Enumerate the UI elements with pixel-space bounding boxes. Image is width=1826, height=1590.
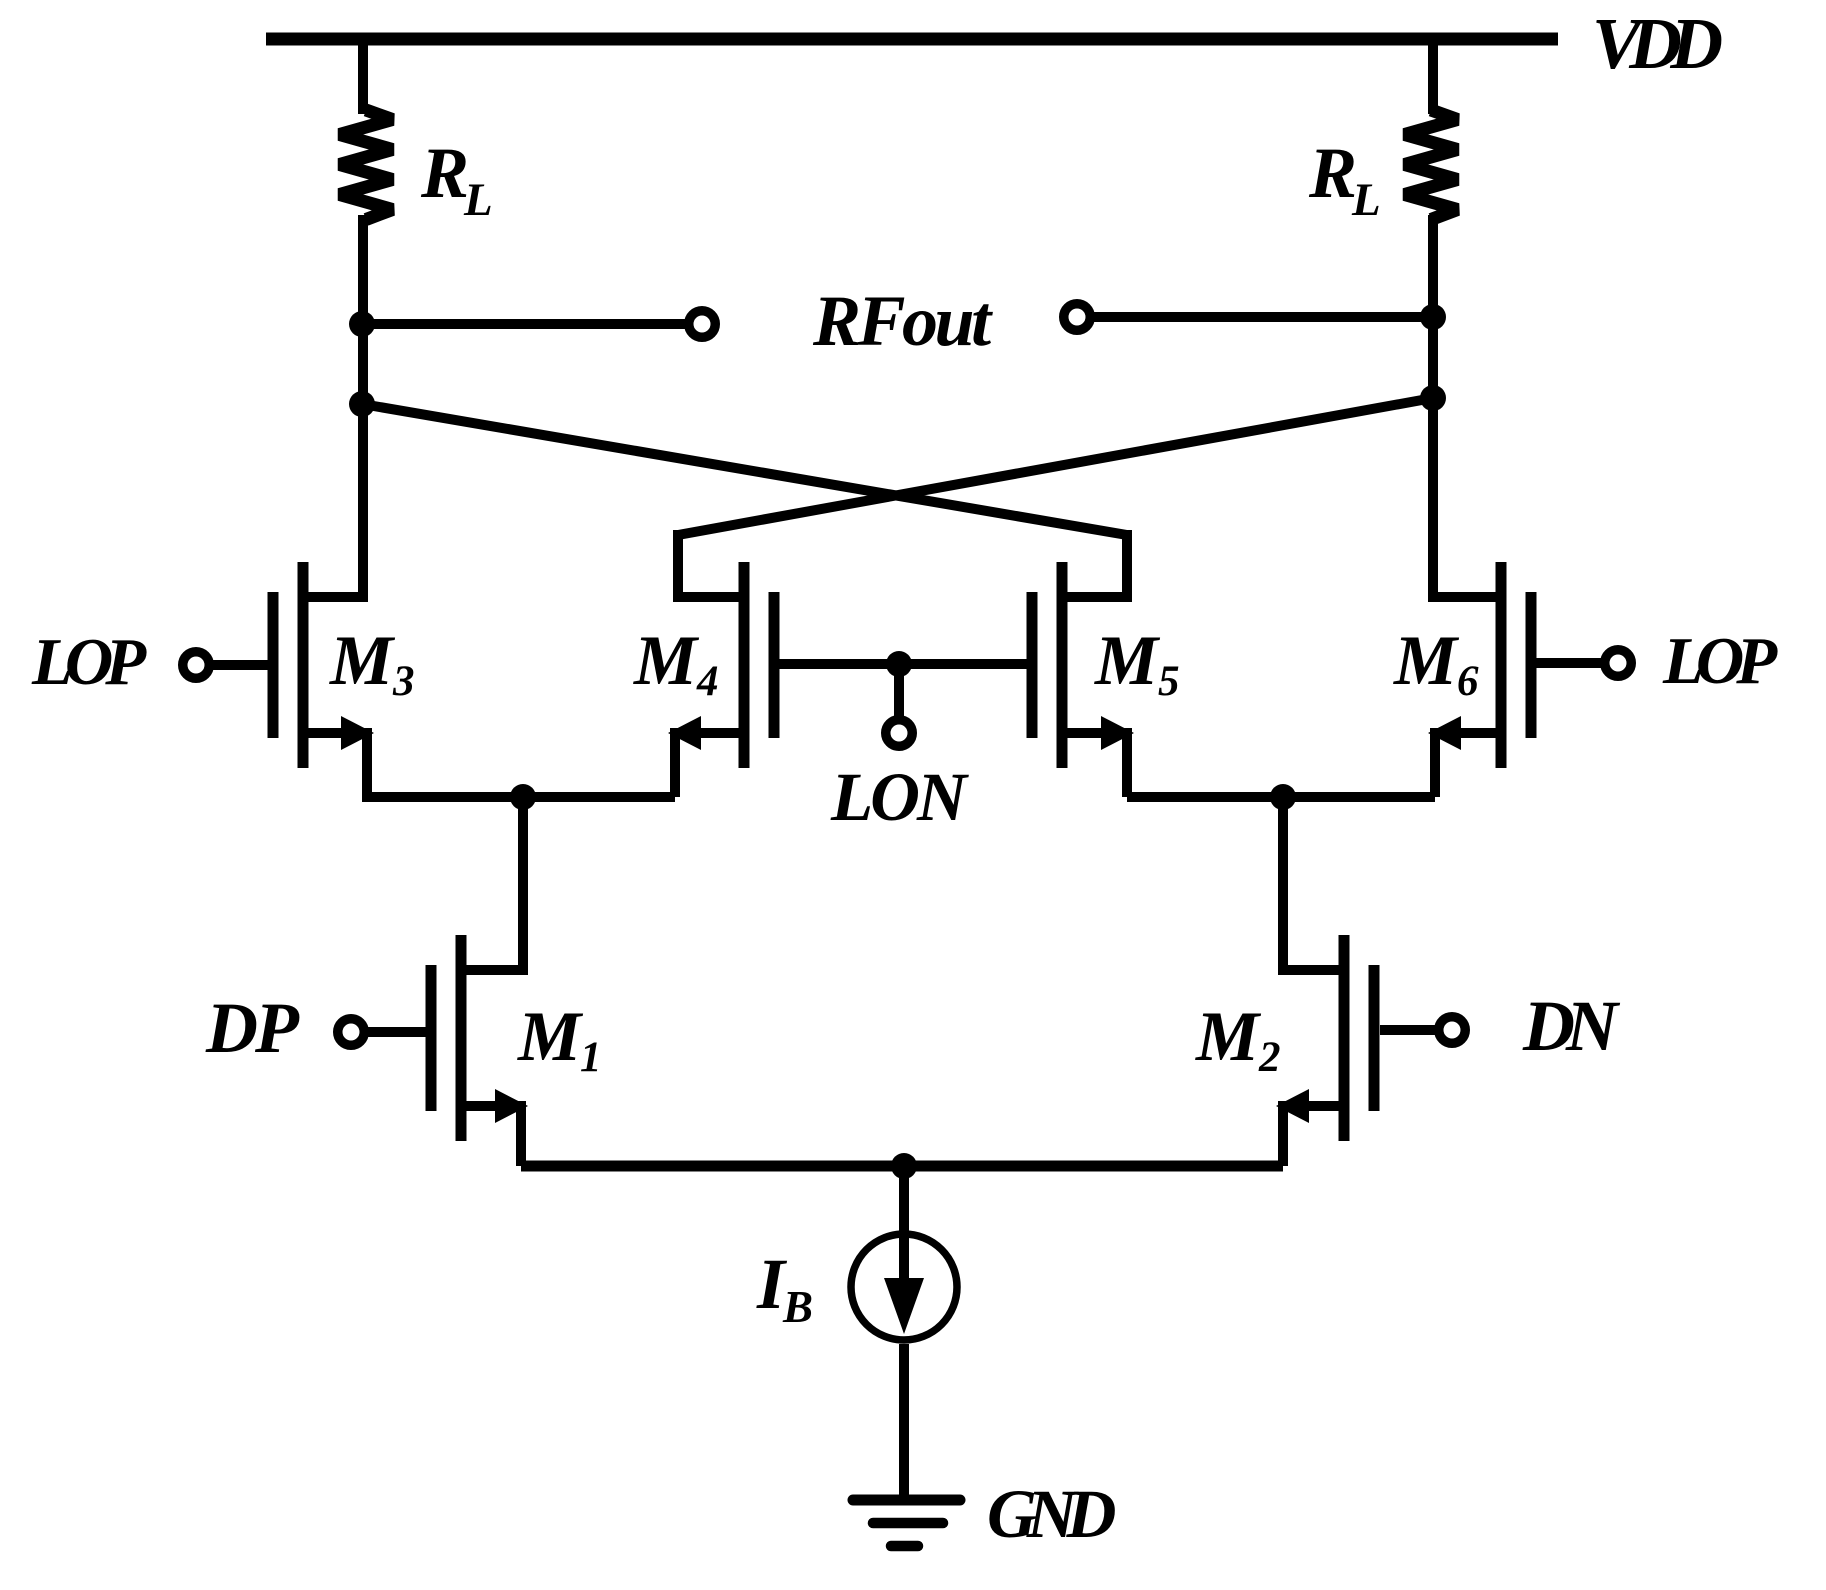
wire tail [521, 1161, 1283, 1172]
wire VDD to RL left [358, 33, 368, 114]
svg-text:GND: GND [987, 1476, 1116, 1552]
wire M6 drain [1433, 592, 1501, 602]
svg-text:M: M [517, 998, 584, 1076]
arrow M3 source [341, 716, 374, 750]
wire cross-couple right-to-M4 [678, 398, 1433, 535]
svg-text:L: L [463, 174, 493, 226]
transistor M3 gate bar [268, 592, 279, 738]
wire M4 source to tail node [523, 792, 675, 802]
ground symbol [853, 1495, 960, 1506]
transistor M4 channel bar [739, 562, 750, 768]
wire M6 gate to LOP [1536, 658, 1605, 668]
svg-text:M: M [1393, 622, 1460, 700]
svg-text:4: 4 [696, 658, 719, 705]
wire M5 drain vertical [1122, 530, 1132, 602]
wire M4 gate to LON [779, 659, 899, 669]
transistor M2 gate bar [1369, 965, 1380, 1111]
node M3-M4 common source [510, 784, 536, 810]
svg-text:M: M [1094, 622, 1161, 700]
resistor RL (left) [340, 110, 393, 220]
svg-text:1: 1 [580, 1034, 602, 1081]
terminal DN [1439, 1017, 1466, 1044]
node tail junction [891, 1153, 917, 1179]
node LON junction [886, 651, 912, 677]
transistor M4 gate bar [769, 592, 780, 738]
transistor M1 channel bar [456, 935, 467, 1141]
transistor M2 channel bar [1339, 935, 1350, 1141]
transistor M6 channel bar [1496, 562, 1507, 768]
svg-text:2: 2 [1258, 1034, 1281, 1081]
transistor M1 gate bar [426, 965, 437, 1111]
wire DP to M1 gate [364, 1027, 426, 1037]
svg-text:R: R [420, 133, 469, 213]
terminal LON [886, 720, 913, 747]
transistor M5 channel bar [1057, 562, 1068, 768]
terminal DP [338, 1019, 365, 1046]
svg-text:RFout: RFout [812, 281, 993, 361]
svg-text:M: M [1195, 998, 1262, 1076]
terminal LOP right [1605, 650, 1632, 677]
svg-text:LOP: LOP [31, 625, 147, 699]
arrow M4 source [668, 716, 701, 750]
arrow M6 source [1428, 716, 1461, 750]
wire M2 gate to DN [1380, 1025, 1439, 1035]
node left output junction lower [349, 391, 375, 417]
wire M5 source [1062, 728, 1127, 738]
terminal RFout right [1064, 304, 1091, 331]
resistor RL (right) [1405, 110, 1458, 220]
wire M3 source to tail node [362, 792, 523, 802]
wire LON stub [894, 664, 904, 720]
node right output junction upper [1420, 304, 1446, 330]
wire RFout right [1090, 312, 1433, 322]
wire M4 source down [670, 728, 680, 797]
wire M4 drain vertical [673, 530, 683, 602]
transistor M6 gate bar [1526, 592, 1537, 738]
wire cross-couple left-to-M5 [362, 404, 1127, 535]
wire RFout left [362, 319, 689, 329]
wire LOP to M3 gate [209, 660, 268, 670]
svg-text:R: R [1308, 133, 1357, 213]
wire M4 drain [678, 592, 744, 602]
arrow M2 source [1276, 1089, 1309, 1123]
svg-text:M: M [633, 622, 700, 700]
transistor M5 gate bar [1027, 592, 1038, 738]
svg-text:DN: DN [1522, 986, 1621, 1066]
wire RL left to M3 drain [358, 215, 368, 602]
wire M1 source down [516, 1101, 526, 1166]
wire M2 drain [1283, 965, 1344, 975]
svg-text:6: 6 [1457, 658, 1479, 705]
wire M6 source [1435, 728, 1501, 738]
wire RL right to M6 drain [1428, 215, 1438, 602]
current source IB [851, 1234, 957, 1340]
svg-text:VDD: VDD [1592, 3, 1721, 84]
svg-text:DP: DP [205, 988, 300, 1068]
wire M1 drain [461, 965, 523, 975]
wire M1 source [461, 1101, 521, 1111]
wire M2 source down [1278, 1101, 1288, 1166]
arrow M5 source [1101, 716, 1134, 750]
transistor M3 channel bar [298, 562, 309, 768]
arrow M1 source [495, 1089, 528, 1123]
wire M2 source [1289, 1101, 1344, 1111]
node left output junction upper [349, 311, 375, 337]
svg-text:3: 3 [392, 658, 415, 705]
wire M6 source to tail node [1283, 792, 1435, 802]
svg-text:M: M [329, 622, 396, 700]
svg-text:L: L [1351, 174, 1381, 226]
wire right node to M2 drain [1278, 797, 1288, 975]
wire M6 source down [1430, 728, 1440, 797]
terminal LOP left [183, 652, 210, 679]
wire M4 source [675, 728, 744, 738]
svg-text:5: 5 [1158, 658, 1180, 705]
wire M5 source to tail node [1127, 792, 1283, 802]
wire M3 drain [303, 592, 363, 602]
svg-text:LOP: LOP [1662, 624, 1778, 698]
wire tail to current source [899, 1166, 909, 1279]
wire M3 source down [362, 728, 372, 797]
terminal RFout left [689, 311, 716, 338]
wire LON to M5 gate [899, 659, 1027, 669]
wire M3 source [303, 728, 367, 738]
wire M5 source down [1122, 728, 1132, 797]
node right output junction lower [1420, 385, 1446, 411]
wire current source to ground [899, 1344, 909, 1500]
svg-text:B: B [782, 1282, 813, 1332]
svg-text:LON: LON [830, 759, 969, 835]
wire VDD to RL right [1428, 33, 1438, 114]
node M5-M6 common source [1270, 784, 1296, 810]
wire VDD rail [266, 33, 1558, 46]
arrow IB current direction [884, 1278, 924, 1334]
wire left node to M1 drain [518, 797, 528, 975]
wire M5 drain [1062, 592, 1127, 602]
